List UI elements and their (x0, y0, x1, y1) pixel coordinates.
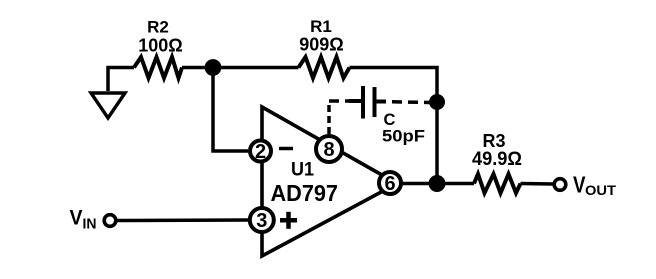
non-inverting input plus sign (280, 212, 297, 229)
wire node A down to pin 2 (213, 68, 248, 152)
resistor R3 (474, 174, 521, 193)
input terminal VIN (104, 215, 116, 227)
wire node A to R1 (213, 66, 299, 70)
wire output node to R3 (437, 182, 474, 186)
pin 2 (250, 141, 271, 164)
pin 8 (316, 136, 342, 162)
capacitor C plates (349, 86, 386, 119)
wire pin 6 to output node (401, 182, 437, 186)
pin 3 (250, 208, 274, 232)
svg-text:IN: IN (83, 217, 97, 233)
label VOUT (573, 172, 616, 199)
resistor R1 (299, 57, 350, 78)
wire R2 to node A (182, 66, 213, 70)
pin 6 (379, 172, 401, 195)
inverting input minus sign (279, 147, 293, 151)
wire R1 to right corner and down to output node (350, 68, 438, 184)
junction output node (429, 175, 446, 192)
svg-text:R3: R3 (482, 131, 505, 151)
svg-text:V: V (70, 206, 84, 230)
svg-text:R2: R2 (147, 18, 169, 37)
svg-text:R1: R1 (310, 17, 332, 36)
svg-text:100Ω: 100Ω (138, 36, 182, 56)
op-amp U1 (262, 107, 397, 256)
svg-text:2: 2 (255, 141, 266, 163)
svg-text:909Ω: 909Ω (299, 35, 343, 55)
svg-text:49.9Ω: 49.9Ω (472, 149, 522, 170)
wire R3 to output terminal (521, 182, 554, 186)
label VIN (70, 206, 97, 233)
svg-text:50pF: 50pF (382, 127, 425, 146)
junction node A (205, 59, 222, 76)
wire VIN to pin 3 (116, 218, 249, 222)
svg-text:6: 6 (384, 173, 395, 195)
svg-text:AD797: AD797 (271, 180, 339, 206)
output terminal VOUT (554, 179, 566, 191)
svg-text:U1: U1 (291, 159, 314, 181)
capacitor C dashed branch from pin 8 (329, 101, 430, 134)
svg-text:3: 3 (256, 210, 267, 232)
ground (91, 68, 134, 119)
resistor R2 (134, 57, 182, 78)
svg-text:8: 8 (323, 139, 334, 161)
junction capacitor to feedback wire (429, 94, 445, 110)
svg-text:OUT: OUT (585, 182, 616, 198)
